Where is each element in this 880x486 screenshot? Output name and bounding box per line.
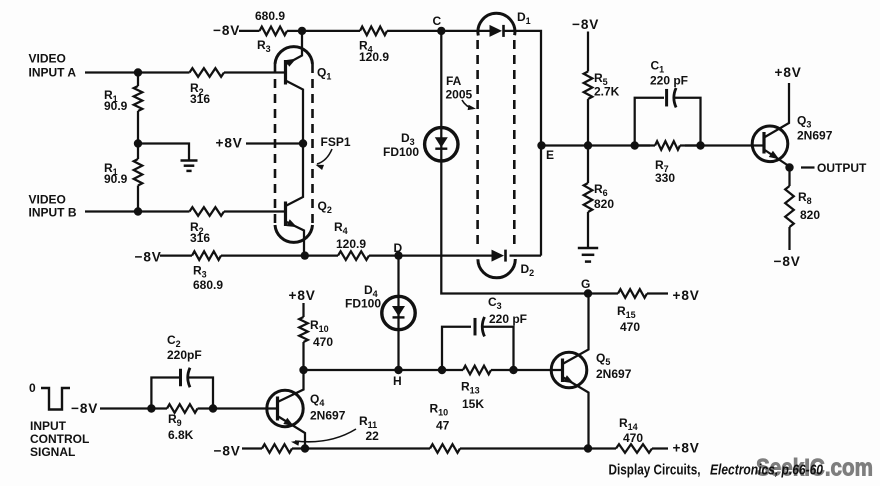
wire R9 to Q4 base: [213, 407, 266, 409]
resistor R1 bottom: [137, 144, 139, 160]
resistor R14: [588, 447, 616, 449]
resistor R13: [463, 366, 491, 375]
svg-text:470: 470: [620, 320, 640, 334]
svg-text:0: 0: [29, 381, 36, 395]
svg-text:+8V: +8V: [289, 288, 316, 303]
svg-text:−8V: −8V: [135, 250, 162, 265]
resistor R10 47: [430, 444, 460, 453]
node input A junction: [134, 68, 142, 76]
wire D1 to right side: [504, 31, 542, 256]
svg-text:2N697: 2N697: [797, 129, 833, 143]
svg-text:2.7K: 2.7K: [594, 85, 620, 99]
transistor Q1: [284, 60, 287, 85]
transistor Q2: [284, 202, 287, 227]
svg-text:470: 470: [623, 431, 643, 445]
svg-text:C: C: [433, 14, 442, 28]
svg-text:+8V: +8V: [775, 65, 802, 80]
wire -8V to R11: [242, 447, 262, 449]
node R10 Q4 collector: [299, 366, 307, 374]
svg-text:820: 820: [800, 208, 820, 222]
svg-text:220pF: 220pF: [167, 348, 202, 362]
node C2 right: [209, 404, 217, 412]
svg-text:G: G: [581, 277, 590, 291]
diode D4: [382, 296, 415, 329]
transistor Q4: [267, 390, 303, 426]
svg-text:SIGNAL: SIGNAL: [30, 445, 75, 459]
svg-text:90.9: 90.9: [104, 172, 128, 186]
node C2 left: [147, 404, 155, 412]
wire to R4 bottom: [305, 254, 338, 256]
resistor R9: [151, 407, 167, 409]
svg-text:VIDEO: VIDEO: [29, 193, 66, 207]
wire -8V to R3 bottom: [160, 254, 192, 256]
node Q1 emitter rail: [298, 27, 306, 35]
resistor R3 top: [260, 27, 288, 36]
label OUTPUT: [801, 166, 815, 168]
capacitor C1: [635, 98, 664, 146]
svg-text:−8V: −8V: [774, 254, 801, 269]
svg-text:−8V: −8V: [213, 23, 240, 38]
diode D1: [490, 25, 503, 37]
resistor R10 470: [302, 303, 304, 317]
wire +8V to collector node: [246, 142, 303, 144]
node H: [394, 366, 402, 374]
node OUTPUT: [788, 167, 790, 168]
wire E rail: [542, 144, 651, 146]
ground R6: [578, 247, 598, 250]
svg-text:E: E: [546, 148, 554, 162]
svg-text:220 pF: 220 pF: [489, 312, 527, 326]
diode D3: [425, 128, 458, 161]
svg-text:CONTROL: CONTROL: [30, 432, 89, 446]
svg-text:680.9: 680.9: [193, 278, 223, 292]
dashed package FSP1: [275, 47, 313, 64]
svg-text:316: 316: [190, 92, 210, 106]
node mid junction: [134, 139, 142, 147]
resistor R8: [788, 168, 790, 187]
wire top rail to R4: [302, 30, 360, 32]
wire C to D1: [441, 30, 489, 32]
svg-text:OUTPUT: OUTPUT: [817, 161, 867, 175]
wire -8V to R3: [239, 30, 260, 32]
node G: [584, 289, 592, 297]
svg-text:47: 47: [436, 419, 450, 433]
svg-text:220 pF: 220 pF: [650, 74, 688, 88]
svg-text:120.9: 120.9: [359, 50, 389, 64]
svg-text:FSP1: FSP1: [321, 135, 351, 149]
svg-text:22: 22: [366, 429, 380, 443]
svg-text:FD100: FD100: [345, 297, 381, 311]
svg-text:90.9: 90.9: [104, 99, 128, 113]
resistor R3 bottom: [192, 251, 221, 260]
svg-text:D: D: [394, 241, 403, 255]
node Q2 emitter: [301, 251, 309, 259]
resistor R4 top: [360, 27, 387, 36]
ground input divider: [181, 159, 198, 162]
svg-text:−8V: −8V: [214, 444, 241, 459]
resistor R15: [588, 292, 618, 294]
wire bottom rail: [292, 447, 305, 449]
resistor R6: [587, 146, 589, 184]
node C1 right: [696, 141, 704, 149]
resistor R7: [635, 144, 655, 146]
wire to ground: [138, 144, 189, 161]
resistor R1 top: [137, 73, 139, 87]
wire R3 to Q1 node: [287, 30, 302, 32]
node E: [537, 141, 545, 149]
svg-text:820: 820: [594, 197, 614, 211]
wire D to D4: [397, 256, 399, 297]
svg-text:+8V: +8V: [216, 135, 243, 150]
resistor R2 bottom: [190, 207, 225, 216]
node Q5 emitter: [584, 444, 592, 452]
svg-text:680.9: 680.9: [255, 9, 285, 23]
node C3 right: [509, 366, 517, 374]
resistor R2 top: [190, 68, 225, 77]
svg-text:330: 330: [655, 171, 675, 185]
wire H rail: [304, 369, 443, 371]
wire D4 to H: [397, 330, 399, 371]
svg-text:FD100: FD100: [383, 145, 419, 159]
svg-text:2005: 2005: [446, 88, 473, 102]
svg-text:INPUT: INPUT: [30, 419, 67, 433]
resistor R5: [587, 32, 589, 72]
svg-text:Electronics, p.66-60: Electronics, p.66-60: [710, 462, 824, 479]
transistor Q3: [752, 126, 788, 162]
node R5 junction: [584, 141, 592, 149]
capacitor C3: [442, 327, 471, 370]
svg-text:470: 470: [313, 335, 333, 349]
diode D2: [492, 250, 505, 262]
wire C to D3: [440, 31, 442, 128]
capacitor C2: [151, 378, 180, 409]
svg-text:−8V: −8V: [71, 401, 98, 416]
node input B junction: [134, 207, 142, 215]
resistor R4 bottom: [338, 251, 369, 260]
dashed package FA2005: [476, 40, 479, 247]
node D: [394, 251, 402, 259]
wire D to D2: [399, 254, 496, 256]
node C: [437, 27, 445, 35]
svg-text:6.8K: 6.8K: [168, 428, 194, 442]
svg-text:2N697: 2N697: [596, 367, 632, 381]
svg-text:INPUT B: INPUT B: [29, 206, 77, 220]
svg-text:H: H: [393, 374, 402, 388]
wire R3b to Q2 emitter: [221, 254, 305, 256]
resistor R11: [262, 444, 292, 453]
wire D3 to G rail: [441, 161, 586, 294]
svg-text:INPUT A: INPUT A: [29, 65, 77, 79]
node collector junction: [299, 139, 307, 147]
node Q4 emitter: [301, 444, 309, 452]
wire input A: [85, 71, 190, 73]
svg-text:Display Circuits,: Display Circuits,: [609, 462, 701, 479]
svg-text:120.9: 120.9: [336, 237, 366, 251]
wire input to R9: [100, 407, 151, 409]
wire input B: [85, 210, 190, 212]
node C1 left: [631, 141, 639, 149]
svg-text:+8V: +8V: [673, 441, 700, 456]
svg-text:316: 316: [190, 231, 210, 245]
svg-text:−8V: −8V: [572, 17, 599, 32]
wire R4 to node C: [387, 30, 441, 32]
node C3 left: [438, 366, 446, 374]
svg-text:2N697: 2N697: [310, 409, 346, 423]
svg-text:15K: 15K: [462, 397, 484, 411]
svg-text:+8V: +8V: [673, 288, 700, 303]
svg-text:VIDEO: VIDEO: [29, 52, 66, 66]
svg-text:FA: FA: [446, 74, 462, 88]
transistor Q5: [551, 352, 587, 388]
wire R4b to node D: [369, 254, 399, 256]
